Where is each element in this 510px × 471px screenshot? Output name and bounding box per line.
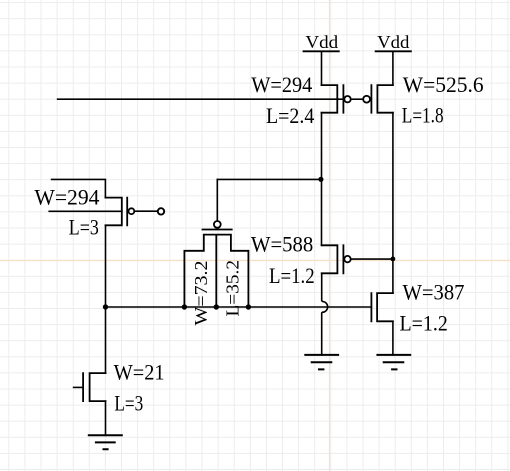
bubble M2 gate <box>363 96 370 103</box>
svg-text:W=525.6: W=525.6 <box>403 72 484 97</box>
open terminal circle <box>158 208 164 214</box>
wire: between M1 and M2 gate bubbles <box>351 98 364 100</box>
wire: M1 drain down to M3 source <box>321 113 323 246</box>
transistor M4 MOS capacitor W=73.2 L=35.2 (gate up) <box>184 230 248 308</box>
wire: M3 gate to right rail <box>351 258 393 260</box>
wire: M6 source stub upper left <box>52 179 106 197</box>
wire: M2 drain down to M5 drain <box>392 113 394 293</box>
wire: Vdd right stem / M2 source <box>392 51 394 85</box>
svg-text:L=3: L=3 <box>69 215 99 240</box>
bubble M4 gate <box>214 221 221 228</box>
svg-text:L=1.2: L=1.2 <box>400 310 448 335</box>
transistor M1 PMOS W=294 L=2.4 (mirrored) <box>322 85 344 113</box>
svg-text:Vdd: Vdd <box>305 32 338 52</box>
ground (right) <box>377 355 410 370</box>
junction bus left <box>103 304 108 309</box>
transistor M7 NMOS W=21 L=3 <box>83 373 105 401</box>
wire: bottom bus <box>106 306 372 308</box>
ground (bottom left) <box>89 435 122 449</box>
wire: Vdd left stem / M1 source <box>321 51 323 85</box>
svg-text:W=21: W=21 <box>114 360 165 385</box>
transistor M5 NMOS W=387 L=1.2 <box>371 293 393 321</box>
wire: long gate input to M1 <box>58 98 345 100</box>
wire: cap gate node horizontal to M1 drain <box>217 178 321 180</box>
bubble M1 gate <box>344 96 350 102</box>
transistor M6 PMOS W=294 L=3 (mirrored) <box>105 198 127 226</box>
wire: M7 source to ground <box>105 401 107 435</box>
wire: M3 drain down with hop over bus <box>322 273 328 355</box>
svg-text:L=3: L=3 <box>114 391 143 416</box>
svg-text:L=1.2: L=1.2 <box>269 263 315 288</box>
junction cap lead right <box>246 304 251 309</box>
transistor M2 PMOS W=525.6 L=1.8 <box>371 85 393 113</box>
junction node A (M1 drain / cap gate) <box>318 177 323 182</box>
junction cap lead left <box>182 304 187 309</box>
svg-text:L=35.2: L=35.2 <box>223 260 243 317</box>
svg-text:L=2.4: L=2.4 <box>266 103 314 128</box>
junction cap bulk <box>214 304 219 309</box>
svg-text:W=294: W=294 <box>251 72 312 97</box>
ground (mid) <box>305 355 338 370</box>
transistor M3 PMOS W=588 L=1.2 (mirrored) <box>322 245 344 273</box>
wire: M5 source to ground <box>392 321 394 355</box>
svg-text:L=1.8: L=1.8 <box>402 102 444 127</box>
junction node B (M3 gate / right rail) <box>391 257 396 262</box>
wire: M6 gate bubble to open terminal <box>134 210 158 212</box>
power Vdd right bar <box>376 50 411 52</box>
svg-text:W=73.2: W=73.2 <box>191 261 211 326</box>
svg-text:W=294: W=294 <box>34 185 99 210</box>
wire: M7 gate stub <box>74 386 84 388</box>
wire: left input stub to M6 <box>49 210 122 212</box>
svg-text:W=387: W=387 <box>403 279 465 304</box>
wire: cap gate stem <box>216 179 218 221</box>
svg-text:Vdd: Vdd <box>377 32 409 52</box>
power Vdd left bar <box>304 50 339 52</box>
bubble M6 gate <box>129 208 135 214</box>
svg-text:W=588: W=588 <box>251 232 313 257</box>
wire: M6 drain down to M7 drain <box>105 225 107 373</box>
bubble M3 gate <box>344 256 350 262</box>
